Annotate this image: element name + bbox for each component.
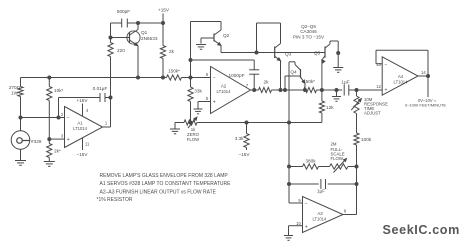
resistor 100k (354, 133, 372, 145)
potentiometer 2M FULL-SCALE FLOW (330, 142, 357, 173)
svg-text:Q5: Q5 (314, 51, 321, 56)
svg-text:*1% RESISTOR: *1% RESISTOR (97, 197, 133, 203)
resistor 220 (108, 43, 125, 57)
svg-text:LT1014: LT1014 (312, 217, 327, 222)
svg-text:A2–A3 FURNISH LINEAR OUTPUT vs: A2–A3 FURNISH LINEAR OUTPUT vs FLOW RATE (100, 189, 217, 195)
node - 10k/2k junction (48, 138, 51, 141)
svg-text:−15V: −15V (238, 152, 250, 157)
svg-text:33k: 33k (194, 89, 202, 94)
svg-text:+: + (305, 225, 308, 231)
svg-text:1W: 1W (11, 91, 19, 96)
node - zero line junctions (189, 121, 291, 124)
svg-text:Q2: Q2 (223, 33, 230, 38)
wire - A4 feedback loop (376, 50, 430, 77)
op-amp A3 LT1014 (296, 197, 347, 233)
ground - 2k* (44, 162, 55, 167)
svg-text:LT1014: LT1014 (73, 126, 88, 131)
svg-text:PIN 3 TO −15V: PIN 3 TO −15V (293, 35, 325, 40)
svg-text:12: 12 (376, 84, 381, 89)
svg-text:1µF: 1µF (341, 80, 349, 85)
wire - zero flow line (175, 123, 322, 130)
wire - mirror base line Q2 to Q5 (221, 51, 325, 54)
svg-text:+15V: +15V (158, 8, 170, 13)
svg-text:A1: A1 (77, 121, 83, 126)
wire - main bridge rail (21, 77, 211, 79)
svg-text:100k: 100k (361, 137, 372, 142)
wire - output line to 150k* (272, 89, 304, 91)
resistor 380k (289, 159, 330, 170)
svg-text:−: − (385, 63, 388, 69)
node - rail junctions (48, 76, 165, 79)
svg-text:LT1014: LT1014 (394, 80, 409, 85)
ground - zero flow pot (170, 129, 180, 134)
resistor 2k output (259, 80, 272, 93)
lamp #328 (11, 131, 42, 161)
svg-text:380k: 380k (305, 159, 316, 164)
svg-text:1µF: 1µF (317, 189, 325, 194)
svg-text:2M: 2M (331, 142, 337, 147)
svg-text:2k*: 2k* (54, 149, 61, 154)
svg-text:A3: A3 (317, 211, 323, 216)
power +15V top (158, 8, 170, 25)
svg-text:Q1: Q1 (141, 30, 148, 35)
svg-text:2k: 2k (169, 49, 175, 54)
note - Q2-Q5 CA3046 PIN 3 TO -15V (293, 24, 325, 40)
svg-text:2N6533: 2N6533 (141, 36, 158, 41)
capacitor 1uF A3 feedback (317, 179, 326, 194)
svg-text:12k: 12k (326, 105, 334, 110)
transistor Q4 (284, 62, 307, 92)
resistor 3.3k to -15V (235, 123, 251, 158)
resistor 12k (319, 90, 334, 123)
op-amp A2 LT1014 (206, 67, 251, 114)
label - output scale (405, 98, 446, 108)
node - output riser junctions (355, 165, 358, 186)
svg-text:LT1014: LT1014 (217, 89, 232, 94)
potentiometer 1k ZERO FLOW (184, 117, 200, 142)
svg-text:3.3k: 3.3k (235, 136, 245, 141)
wire - A2 output line (251, 89, 259, 91)
resistor 150k* second (303, 79, 317, 93)
op-amp A1 LT1014 (61, 98, 111, 157)
node - A2 pin6 node (189, 76, 192, 79)
node - Q1 base tee (109, 36, 112, 39)
ground - before 1uF (332, 97, 341, 102)
capacitor 0.01uF (93, 86, 108, 102)
wire - A3 output riser up to pin12 node (343, 90, 357, 215)
watermark SeekIC.com (383, 223, 460, 237)
node - 1000pF tee (189, 59, 192, 62)
note - circuit description (97, 173, 232, 203)
svg-text:150k*: 150k* (303, 79, 315, 84)
svg-text:+: + (213, 100, 216, 106)
wire - A3 pin10 to ground (289, 226, 303, 236)
node - riser junctions (288, 165, 291, 186)
capacitor 1uF input (341, 80, 349, 96)
wire - A2 pin5 to ground (198, 102, 211, 110)
capacitor 1000pF (229, 70, 260, 92)
svg-text:13: 13 (376, 62, 381, 67)
potentiometer 10M RESPONSE TIME ADJUST (351, 96, 388, 116)
wire - cap to output riser (105, 96, 112, 127)
svg-text:270Ω: 270Ω (9, 85, 21, 90)
svg-text:150k*: 150k* (168, 69, 180, 74)
op-amp A4 LT1014 (376, 57, 426, 95)
resistor 150k* to A2 input (167, 69, 182, 81)
svg-text:FLOW: FLOW (331, 156, 344, 161)
svg-text:+: + (67, 137, 70, 143)
svg-text:500pF: 500pF (117, 9, 130, 14)
wire - riser Q4 collector down to A3 pin9 (289, 62, 303, 203)
wire - 1uF A3 feedback line (289, 183, 357, 185)
svg-text:CA3046: CA3046 (300, 29, 317, 34)
svg-text:0.01µF: 0.01µF (93, 86, 108, 91)
svg-text:11: 11 (85, 142, 90, 147)
svg-text:A1 SERVOS #328 LAMP TO CONSTAN: A1 SERVOS #328 LAMP TO CONSTANT TEMPERAT… (100, 181, 232, 187)
svg-text:−: − (213, 76, 216, 82)
wire - A1 pin2 input from lamp tap (21, 116, 65, 119)
capacitor 500pF (117, 9, 130, 28)
transistor Q3 diode connected (257, 23, 292, 92)
resistor 270 ohm 1W (9, 78, 23, 131)
wire - left vertical from cap corner down through base node (110, 23, 112, 43)
ground - A2 pin5 (194, 109, 203, 114)
svg-text:+: + (385, 88, 388, 94)
svg-text:14: 14 (421, 70, 426, 75)
wire - A1 pin3 input (49, 138, 64, 140)
svg-text:0–1000 FEET/MINUTE: 0–1000 FEET/MINUTE (405, 103, 446, 108)
wire - 1000pF feedback line (191, 60, 255, 70)
transistor Q5 (314, 41, 340, 92)
node - lamp tap (19, 116, 22, 119)
wire - top rail from 500pF corner to +15V node (111, 22, 164, 24)
svg-text:#328: #328 (31, 139, 42, 144)
svg-text:1000pF: 1000pF (229, 73, 245, 78)
svg-text:−15V: −15V (76, 152, 88, 157)
svg-text:+15V: +15V (76, 98, 88, 103)
wire - 1uF to A4 pin12 (349, 89, 382, 92)
resistor 2k* (47, 139, 61, 161)
svg-text:−: − (305, 201, 308, 207)
wire - A4 output (427, 76, 429, 97)
svg-text:REMOVE LAMP'S GLASS ENVELOPE F: REMOVE LAMP'S GLASS ENVELOPE FROM 328 LA… (100, 173, 229, 179)
svg-text:FLOW: FLOW (187, 137, 200, 142)
wire - A1 feedback riser and 0.01uF line (59, 98, 101, 118)
svg-text:SeekIC.com: SeekIC.com (383, 223, 460, 237)
resistor 10k* (47, 78, 64, 140)
wire - 220 bottom down to 0.01uF node crossing rail (110, 57, 112, 98)
svg-text:Q4: Q4 (290, 70, 297, 75)
ground - Q5 collector (333, 68, 343, 73)
ground - Q2 base (196, 45, 206, 50)
wire - 150k to 1uF with ground tap (317, 89, 343, 97)
resistor 2k collector load (160, 23, 174, 78)
ground - lamp (15, 161, 26, 166)
svg-text:10k*: 10k* (54, 88, 64, 93)
svg-text:A2: A2 (221, 84, 227, 89)
svg-text:A4: A4 (398, 74, 404, 79)
transistor Q1 2N6533 (111, 22, 158, 78)
svg-text:ADJUST: ADJUST (364, 111, 381, 116)
svg-text:Q3: Q3 (285, 52, 292, 57)
wire - feedback riser pin6 up to Q2 collector loop (191, 22, 222, 78)
resistor 33k (188, 78, 203, 123)
ground - A3 pin10 (284, 236, 293, 241)
svg-text:220: 220 (117, 48, 125, 53)
transistor Q2 (201, 30, 230, 53)
svg-text:−: − (67, 115, 70, 121)
svg-text:2k: 2k (264, 80, 270, 85)
